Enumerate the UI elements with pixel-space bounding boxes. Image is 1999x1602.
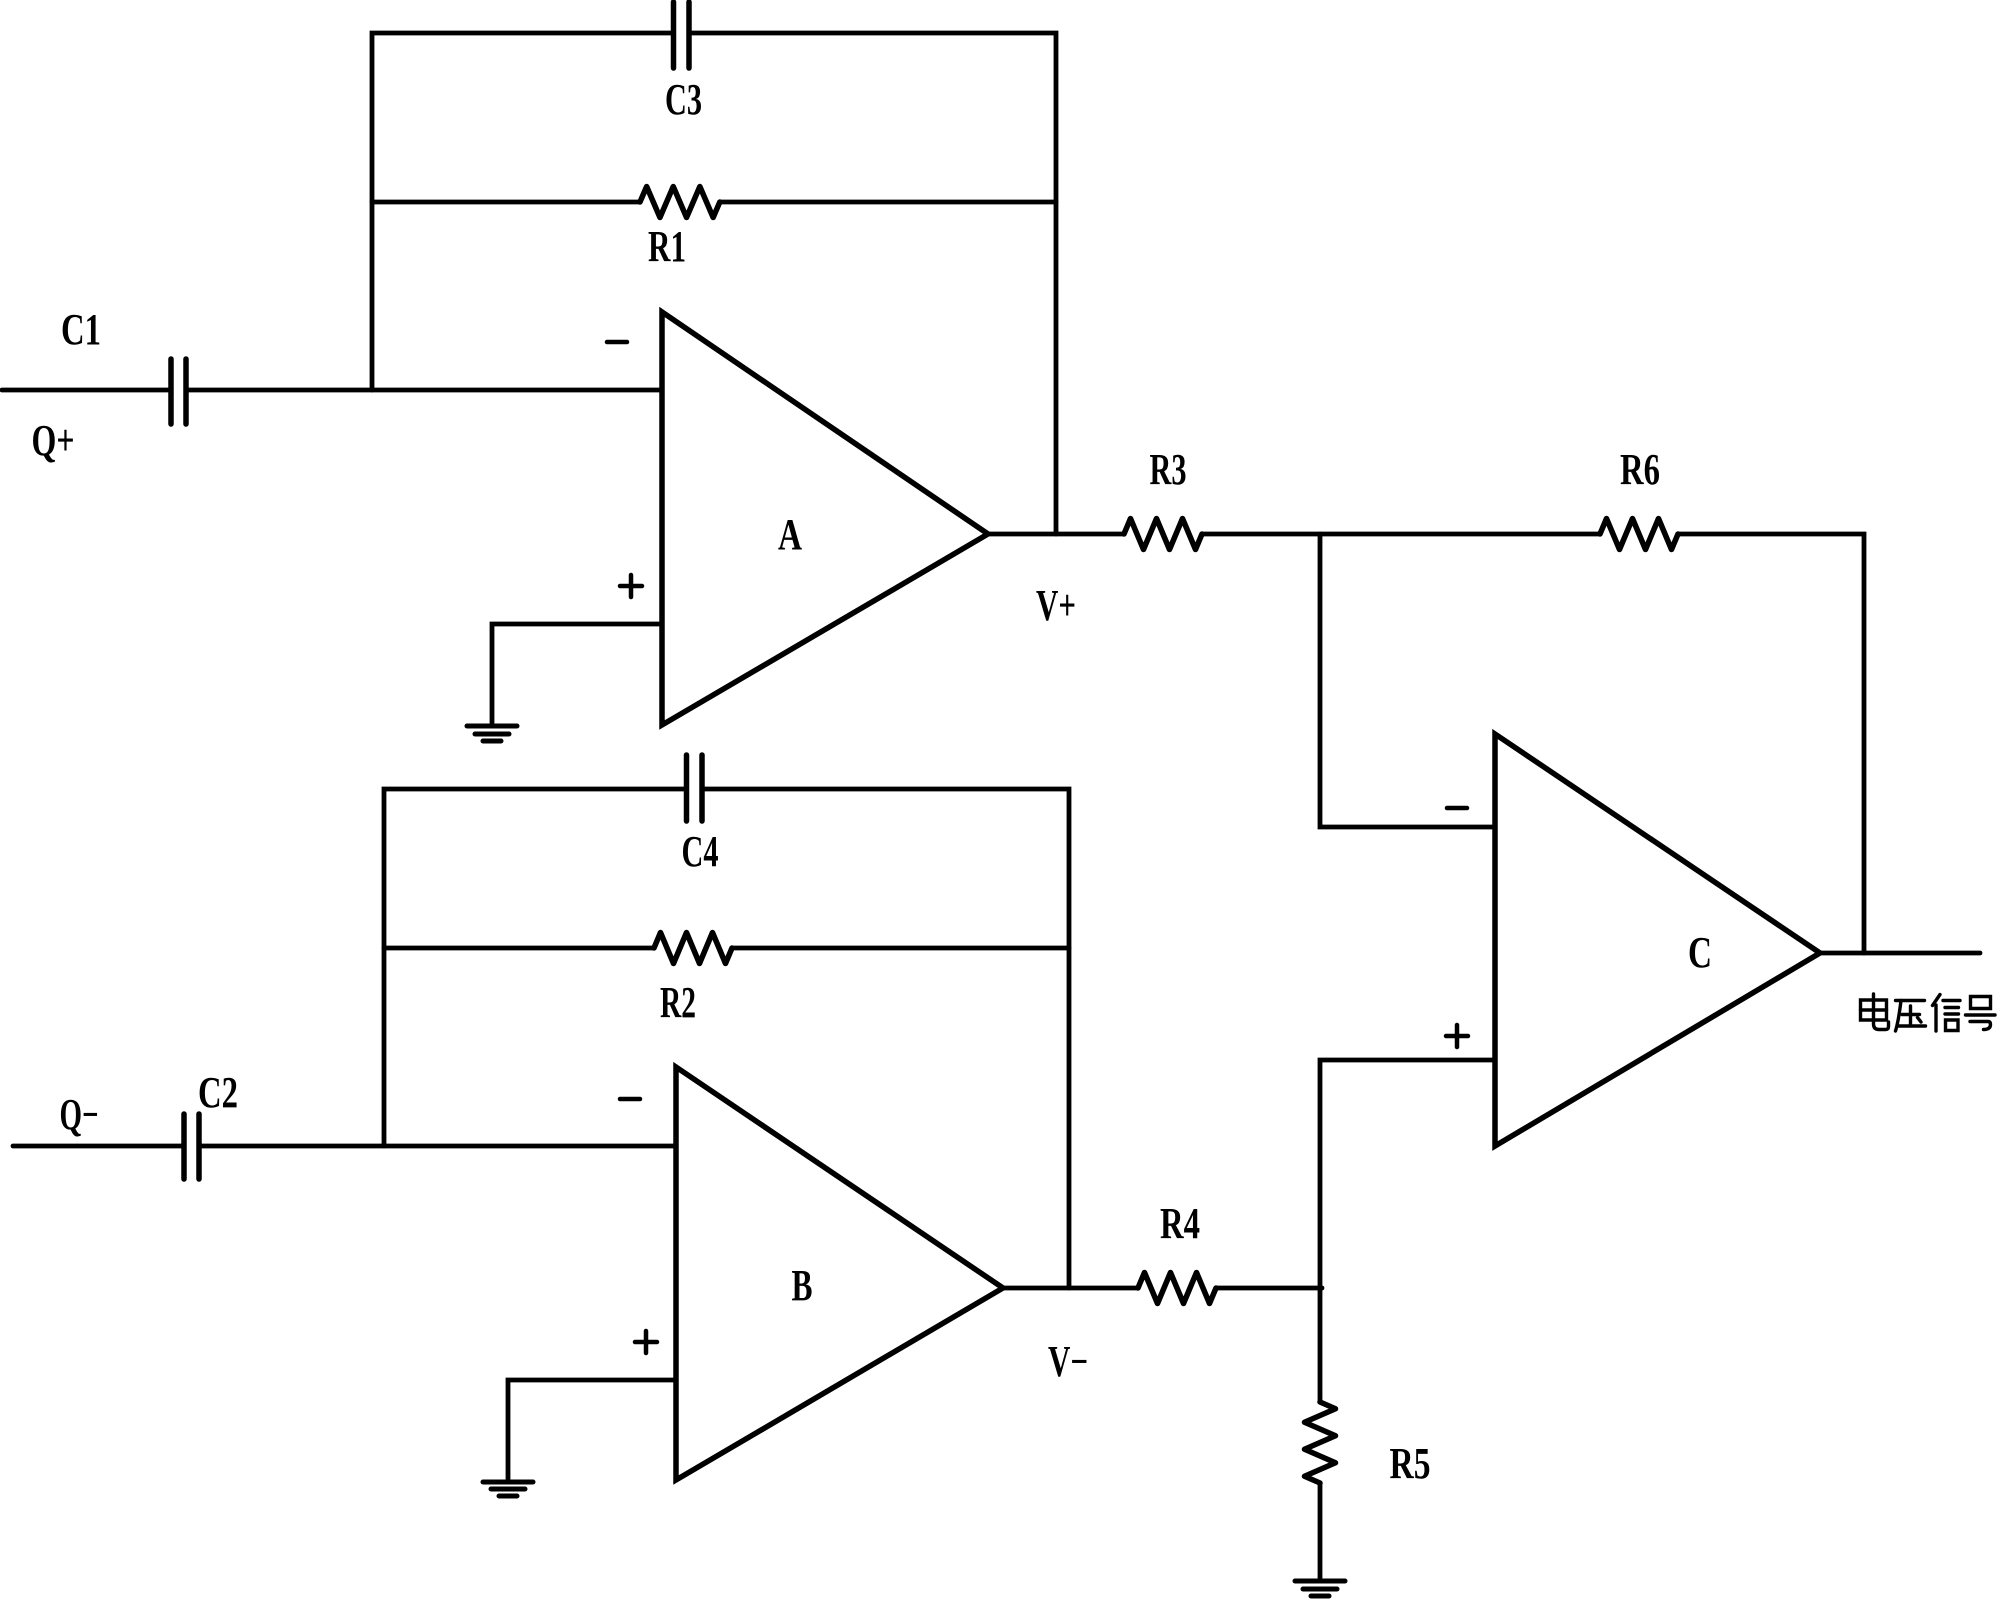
wire: stage A feedback top-left segment and left vertical [372,33,671,390]
svg-text:Q+: Q+ [32,416,75,465]
wire: R2 branch right segment [732,946,1069,951]
pin label: op-amp A non-inverting plus [620,575,642,597]
svg-text:R4: R4 [1160,1199,1200,1248]
wire: R3 to R6 through node [1202,532,1600,537]
wire: stage B feedback top-left segment and left vertical [384,789,685,1146]
svg-text:C1: C1 [61,305,101,354]
capacitor C1 [171,359,186,424]
wire: op-amp A non-inverting input and ground drop [492,624,662,723]
svg-text:B: B [792,1261,813,1310]
svg-text:R2: R2 [660,978,696,1027]
wire: R6 to feedback corner and vertical to op-amp C output [1678,534,1864,953]
glyph ya [1896,1001,1926,1032]
svg-text:V+: V+ [1036,581,1076,630]
wire: op-amp B non-inverting input and ground drop [508,1380,676,1479]
ground (R5) [1295,1581,1345,1596]
wire: op-amp B output to R4 [1003,1286,1138,1291]
wire: Q- input left of C2 [13,1144,182,1149]
op-amp C [1495,734,1820,1146]
capacitor C4 [687,755,703,821]
wire: op-amp C non-inverting input and vertical down to R5 [1320,1060,1495,1402]
wire: R1 branch left segment [372,200,640,205]
op-amp A [662,312,988,725]
wire: node drop to op-amp C inverting input [1320,534,1495,827]
svg-text:R3: R3 [1150,445,1187,494]
wire: R1 branch right segment [720,200,1056,205]
svg-text:C: C [1688,928,1712,977]
wire: op-amp C output [1820,951,1980,956]
wire: R2 branch left segment [384,946,654,951]
resistor R5 [1305,1402,1336,1483]
output net label: Chinese characters dian ya xin hao (voltage signal) [1861,994,1996,1031]
wire: stage A feedback top-right segment and right vertical [692,33,1057,534]
pin label: op-amp C inverting minus [1447,806,1467,811]
pin label: op-amp C non-inverting plus [1446,1025,1468,1047]
wire: R4 to junction node [1216,1286,1322,1291]
svg-text:R6: R6 [1620,445,1660,494]
svg-text:R5: R5 [1390,1439,1431,1488]
svg-text:C3: C3 [665,75,702,124]
svg-text:C4: C4 [682,827,719,876]
glyph xin [1933,995,1961,1032]
resistor R6 [1600,519,1678,550]
wire: stage B feedback top-right segment and right vertical [704,789,1069,1288]
wire: op-amp A output to R3 [988,532,1124,537]
wire: R5 to ground [1318,1483,1323,1578]
svg-text:Q−: Q− [60,1090,99,1139]
wire: Q+ input right of C1 to op-amp A inverting input [188,388,662,393]
svg-text:A: A [778,510,802,559]
capacitor C2 [184,1114,199,1179]
op-amp B [676,1067,1003,1480]
svg-text:R1: R1 [648,222,686,271]
wire: Q+ input left of C1 [2,388,169,393]
ground (op-amp B) [483,1482,533,1496]
resistor R4 [1138,1273,1216,1304]
svg-text:V−: V− [1048,1337,1088,1386]
resistor R1 [640,187,720,218]
capacitor C3 [674,2,690,68]
wire: Q- input right of C2 to op-amp B inverting input [201,1144,676,1149]
ground (op-amp A) [467,726,517,741]
pin label: op-amp B inverting minus [620,1097,640,1102]
glyph dian [1861,994,1889,1030]
pin label: op-amp A inverting minus [607,340,627,345]
glyph hao [1966,997,1996,1030]
resistor R3 [1124,519,1202,550]
svg-text:C2: C2 [198,1068,238,1117]
pin label: op-amp B non-inverting plus [635,1331,657,1353]
resistor R2 [654,933,732,964]
